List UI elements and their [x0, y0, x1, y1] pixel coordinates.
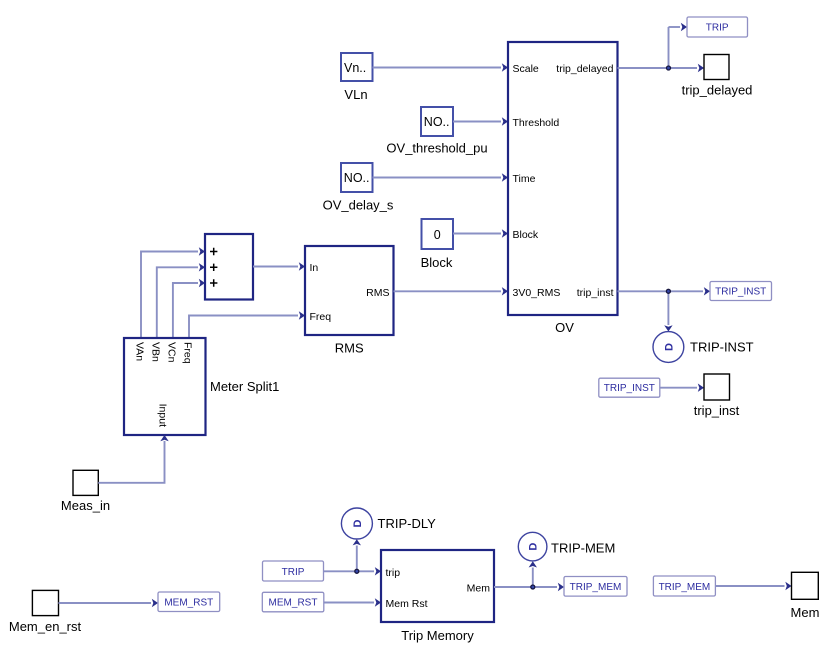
- svg-text:Mem: Mem: [791, 605, 820, 620]
- outport Mem: [791, 572, 820, 620]
- subsystem OV: [508, 42, 618, 335]
- svg-text:TRIP_MEM: TRIP_MEM: [570, 582, 622, 593]
- wire sum to RMS In: [253, 262, 305, 270]
- svg-text:NO..: NO..: [424, 115, 450, 129]
- junction trip_delayed: [667, 66, 671, 70]
- data store TRIP-MEM: [518, 532, 615, 561]
- wire Meter Split1 Freq to RMS Freq: [189, 311, 305, 338]
- svg-text:OV_delay_s: OV_delay_s: [323, 198, 394, 213]
- inport Meas_in: [61, 470, 110, 513]
- from tag TRIP: [263, 561, 324, 581]
- wire Meas_in to Meter Split1 Input: [98, 435, 168, 483]
- wire TRIP_INST tag to outport trip_inst: [660, 384, 704, 392]
- svg-text:OV_threshold_pu: OV_threshold_pu: [386, 141, 487, 156]
- from tag TRIP_INST: [599, 378, 660, 397]
- svg-text:Meas_in: Meas_in: [61, 498, 110, 513]
- inport Mem_en_rst: [9, 590, 82, 634]
- data store TRIP-DLY: [341, 508, 436, 539]
- svg-text:VAn: VAn: [134, 342, 146, 361]
- svg-text:Freq: Freq: [182, 342, 194, 364]
- wire MEM_RST tag to Trip Memory Mem Rst: [324, 598, 381, 606]
- goto tag TRIP_MEM: [564, 577, 627, 597]
- subsystem Meter Split1: [124, 338, 279, 435]
- constant OV_delay_s: [323, 163, 394, 213]
- svg-text:VLn: VLn: [344, 87, 367, 102]
- svg-text:trip: trip: [386, 567, 401, 579]
- svg-text:D: D: [528, 543, 540, 551]
- wire TRIP_MEM tag to outport Mem: [715, 582, 791, 590]
- data store TRIP-INST: [653, 332, 754, 363]
- junction Mem: [531, 585, 535, 589]
- outport trip_delayed: [682, 55, 753, 98]
- constant OV_threshold_pu: [386, 107, 487, 156]
- svg-text:Block: Block: [421, 255, 453, 270]
- svg-text:NO..: NO..: [344, 171, 370, 185]
- svg-text:trip_inst: trip_inst: [577, 287, 614, 299]
- wire OV trip_inst to TRIP_INST tag: [618, 287, 711, 331]
- svg-text:MEM_RST: MEM_RST: [164, 597, 213, 608]
- wire OV_threshold_pu to OV Threshold: [453, 117, 508, 125]
- svg-text:0: 0: [434, 228, 441, 242]
- constant VLn: [341, 53, 373, 102]
- from tag TRIP_MEM right: [653, 576, 715, 596]
- svg-text:TRIP_MEM: TRIP_MEM: [659, 582, 711, 593]
- svg-text:3V0_RMS: 3V0_RMS: [513, 287, 561, 299]
- svg-text:Mem: Mem: [467, 583, 491, 595]
- svg-text:Threshold: Threshold: [513, 117, 560, 129]
- svg-text:RMS: RMS: [335, 340, 364, 355]
- wire Trip Memory Mem to TRIP_MEM tag: [494, 561, 564, 591]
- subsystem Trip Memory: [381, 550, 494, 643]
- svg-text:Meter Split1: Meter Split1: [210, 379, 279, 394]
- svg-text:TRIP_INST: TRIP_INST: [715, 287, 766, 298]
- wire Block to OV Block: [453, 229, 508, 237]
- svg-text:Input: Input: [157, 404, 169, 427]
- svg-text:Mem_en_rst: Mem_en_rst: [9, 619, 82, 634]
- svg-text:In: In: [310, 262, 319, 274]
- wire Meter Split1 VCn to sum: [173, 279, 205, 338]
- svg-text:TRIP: TRIP: [282, 567, 305, 578]
- svg-text:TRIP-MEM: TRIP-MEM: [551, 541, 615, 556]
- svg-text:VBn: VBn: [149, 342, 161, 362]
- wire Meter Split1 VAn to sum: [141, 247, 205, 338]
- wire OV_delay_s to OV Time: [373, 173, 509, 181]
- from tag MEM_RST: [262, 592, 324, 612]
- svg-text:RMS: RMS: [366, 287, 389, 299]
- svg-text:Time: Time: [513, 173, 536, 185]
- svg-text:OV: OV: [555, 320, 574, 335]
- outport trip_inst: [694, 374, 740, 418]
- svg-text:Mem Rst: Mem Rst: [386, 598, 428, 610]
- svg-text:D: D: [664, 343, 676, 351]
- wire OV trip_delayed to outport and TRIP tag: [618, 23, 705, 72]
- sum block: [205, 234, 253, 300]
- svg-text:TRIP-DLY: TRIP-DLY: [378, 516, 437, 531]
- svg-text:Vn..: Vn..: [344, 61, 366, 75]
- svg-text:D: D: [352, 519, 364, 527]
- svg-text:Trip Memory: Trip Memory: [401, 628, 474, 643]
- svg-text:TRIP: TRIP: [706, 23, 729, 34]
- junction TRIP trip: [355, 569, 359, 573]
- subsystem RMS: [305, 246, 394, 355]
- svg-text:TRIP-INST: TRIP-INST: [690, 340, 754, 355]
- svg-text:trip_delayed: trip_delayed: [682, 82, 753, 97]
- svg-text:Block: Block: [513, 229, 539, 241]
- wire VLn to OV Scale: [373, 63, 509, 71]
- junction trip_inst: [666, 289, 670, 293]
- svg-text:Freq: Freq: [310, 311, 332, 323]
- svg-text:VCn: VCn: [165, 342, 177, 363]
- wire TRIP tag to Trip Memory trip: [324, 539, 382, 575]
- wire Mem_en_rst to MEM_RST tag: [59, 599, 159, 607]
- svg-text:trip_delayed: trip_delayed: [556, 63, 613, 75]
- constant Block: [421, 219, 453, 270]
- svg-text:trip_inst: trip_inst: [694, 403, 740, 418]
- goto tag TRIP_INST: [710, 282, 772, 301]
- wire Meter Split1 VBn to sum: [157, 263, 205, 338]
- svg-text:MEM_RST: MEM_RST: [269, 598, 318, 609]
- goto tag MEM_RST: [158, 592, 220, 612]
- svg-text:Scale: Scale: [513, 63, 539, 75]
- goto tag TRIP: [687, 17, 748, 37]
- svg-text:TRIP_INST: TRIP_INST: [604, 383, 655, 394]
- wire RMS to OV 3V0_RMS: [394, 287, 509, 295]
